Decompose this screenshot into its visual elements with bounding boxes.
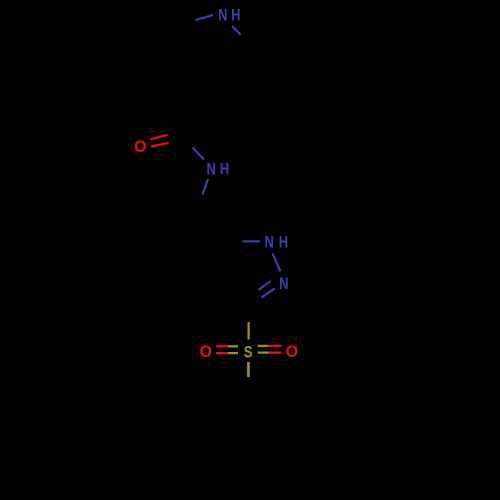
svg-text:O: O [134,139,146,156]
wire: S=O left double bond lower line, red half (O side) [216,352,228,354]
wire: S=O left double bond upper line, olive half (S side) [228,345,238,347]
wire: S=O right double bond lower line, olive half (S side) [258,352,269,354]
wire: C=O double bond upper line (O side, red) [150,135,168,139]
node N2: amide NH label [207,161,230,179]
wire: N4=C3 double bond inner line (N side, blue) [262,288,275,297]
wire: bond C3-S (S side, olive, vertical) [248,322,250,340]
wire: bond N3-N4 pyrazole (full blue) [273,254,281,272]
wire: S=O right double bond lower line, red half (O side) [269,352,282,354]
svg-text:N: N [264,234,273,252]
node N1: piperidine NH label [218,7,240,25]
svg-text:O: O [200,344,212,361]
wire: bond C7a-N3 pyrazole (N side, blue, horizontal) [243,240,261,242]
node O3: right sulfonyl oxygen label [286,344,298,361]
node O2: left sulfonyl oxygen label [200,344,212,361]
node O1: carbonyl oxygen label [134,139,146,156]
wire: S=O right double bond upper line, olive half (S side) [258,345,269,347]
svg-text:O: O [286,344,298,361]
wire: S=O left double bond lower line, olive half (S side) [228,352,238,354]
wire: S=O right double bond upper line, red half (O side) [269,345,282,347]
svg-text:S: S [244,344,253,361]
wire: S=O left double bond upper line, red half (O side) [216,345,228,347]
wire: bond N1-C6 (piperidine right half-bond, N side) [232,26,241,35]
wire: bond S-CH (S side, olive, vertical, below S) [247,362,250,377]
node S1: sulfonyl sulfur label [244,344,253,361]
svg-text:N: N [279,276,288,294]
wire: C=O double bond lower line (O side, red) [151,143,169,147]
wire: N4=C3 double bond outer line (N side, blue) [259,281,271,290]
svg-text:H: H [231,7,240,25]
svg-text:H: H [220,161,229,179]
wire: bond C2-N1 (piperidine left half-bond, N side) [196,15,214,20]
svg-text:N: N [207,161,216,179]
node N4: pyrazole N label [279,276,288,294]
svg-text:H: H [279,234,288,252]
node N3: pyrazole NH label [264,234,288,252]
wire: bond N2-CH2 (N side, blue) [203,179,208,195]
svg-text:N: N [218,7,227,25]
wire: bond C(=O)-N2 amide (N side, blue) [193,148,205,160]
